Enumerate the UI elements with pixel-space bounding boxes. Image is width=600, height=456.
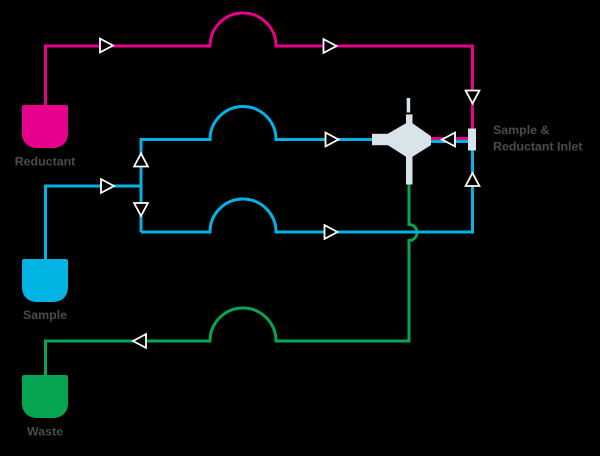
svg-text:Waste: Waste xyxy=(27,425,63,439)
svg-text:Sample: Sample xyxy=(23,308,67,322)
svg-text:Reductant: Reductant xyxy=(15,155,76,169)
svg-text:Reductant Inlet: Reductant Inlet xyxy=(493,140,583,154)
svg-text:Sample &: Sample & xyxy=(493,123,550,137)
